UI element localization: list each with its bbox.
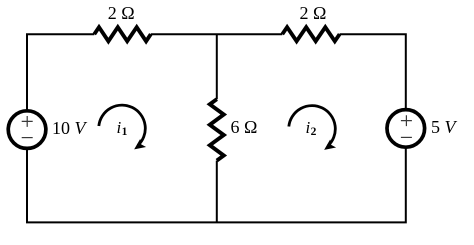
wire top-right: R2 to right corner — [340, 34, 406, 108]
resistor R1 (2 ohm, top-left) — [94, 27, 151, 41]
V2 plus sign — [401, 115, 412, 126]
wire bottom: left corner to right corner — [27, 149, 406, 223]
wire top-left: left corner to R1 — [27, 34, 94, 110]
label 6 ohm — [231, 118, 258, 136]
voltage source V2 (5 V, right) — [387, 110, 425, 148]
arrowhead of i1 — [135, 140, 145, 149]
voltage source V1 (10 V, left) — [8, 111, 46, 149]
label 2 ohm left — [108, 4, 135, 22]
wire top-middle: R1 to R2 through center node — [151, 33, 282, 35]
wire middle bottom: R3 to bottom wire — [216, 161, 218, 223]
mesh current arrow i2 (clockwise arc) — [289, 106, 335, 146]
mesh current arrow i1 (clockwise arc) — [99, 105, 145, 145]
wire middle top: center node to R3 — [216, 34, 218, 99]
label i2 — [306, 119, 317, 139]
label i1 — [117, 119, 128, 139]
resistor R3 (6 ohm, middle) — [210, 99, 224, 160]
label 5 V — [431, 118, 456, 136]
V2 minus sign — [401, 136, 412, 138]
V1 minus sign — [22, 137, 33, 139]
label 2 ohm right — [300, 4, 327, 22]
label 10 V — [52, 119, 86, 137]
V1 plus sign — [22, 116, 33, 127]
arrowhead of i2 — [325, 140, 335, 149]
resistor R2 (2 ohm, top-right) — [282, 27, 339, 41]
